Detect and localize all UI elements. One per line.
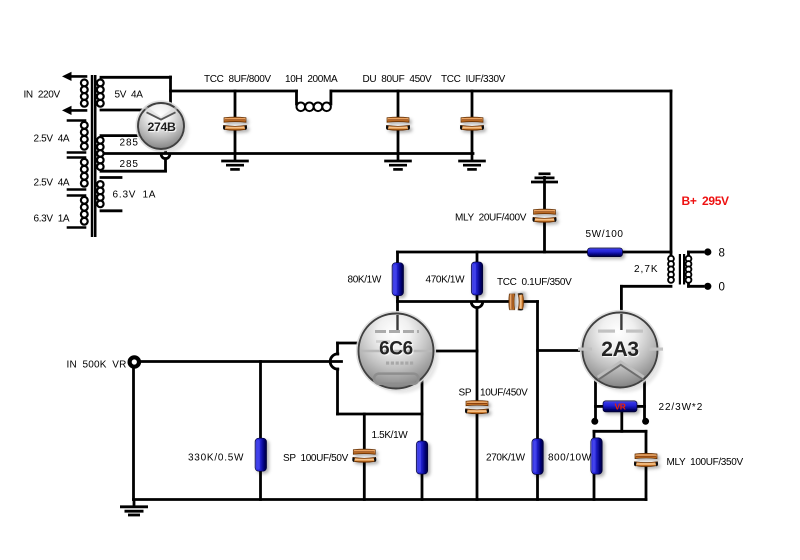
svg-text:6.3V 1A: 6.3V 1A — [34, 214, 70, 225]
svg-text:330K/0.5W: 330K/0.5W — [188, 453, 244, 464]
svg-text:270K/1W: 270K/1W — [486, 453, 526, 464]
svg-text:TCC IUF/330V: TCC IUF/330V — [441, 74, 506, 85]
svg-text:SP: SP — [459, 388, 472, 399]
svg-text:80K/1W: 80K/1W — [348, 275, 382, 286]
svg-text:SP 100UF/50V: SP 100UF/50V — [283, 453, 349, 464]
svg-text:TCC 0.1UF/350V: TCC 0.1UF/350V — [497, 277, 572, 288]
svg-text:0: 0 — [719, 282, 725, 294]
svg-text:TCC 8UF/800V: TCC 8UF/800V — [204, 74, 271, 85]
svg-text:2.5V 4A: 2.5V 4A — [34, 134, 70, 145]
svg-text:5V 4A: 5V 4A — [115, 90, 144, 101]
svg-text:1.5K/1W: 1.5K/1W — [372, 430, 409, 441]
svg-text:470K/1W: 470K/1W — [426, 275, 466, 286]
svg-text:DU 80UF 450V: DU 80UF 450V — [363, 74, 432, 85]
svg-text:IN 500K VR: IN 500K VR — [67, 360, 127, 371]
svg-text:274B: 274B — [148, 120, 176, 134]
svg-text:22/3W*2: 22/3W*2 — [659, 402, 704, 413]
svg-text:2A3: 2A3 — [601, 338, 638, 361]
svg-text:VR: VR — [614, 401, 625, 411]
svg-text:MLY 100UF/350V: MLY 100UF/350V — [667, 457, 744, 468]
svg-text:285: 285 — [120, 138, 139, 149]
svg-text:10H 200MA: 10H 200MA — [285, 74, 338, 85]
svg-text:800/10W: 800/10W — [548, 453, 592, 464]
svg-text:10UF/450V: 10UF/450V — [480, 388, 528, 399]
svg-text:8: 8 — [719, 248, 725, 260]
svg-text:5W/100: 5W/100 — [586, 229, 624, 240]
svg-text:2,7K: 2,7K — [634, 264, 659, 275]
svg-text:2.5V 4A: 2.5V 4A — [34, 178, 70, 189]
svg-text:6C6: 6C6 — [379, 339, 413, 360]
svg-text:MLY 20UF/400V: MLY 20UF/400V — [455, 213, 527, 224]
svg-text:285: 285 — [120, 159, 139, 170]
svg-text:6.3V 1A: 6.3V 1A — [113, 190, 157, 201]
svg-text:IN 220V: IN 220V — [24, 90, 61, 101]
svg-text:B+ 295V: B+ 295V — [682, 194, 730, 208]
